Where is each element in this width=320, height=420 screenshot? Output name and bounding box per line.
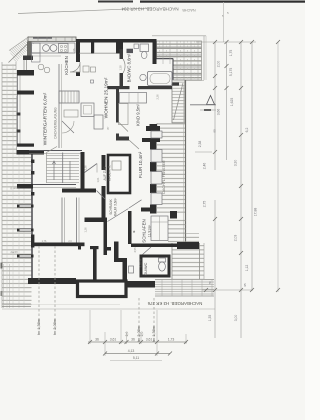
svg-text:WOHNEN 25,19m²: WOHNEN 25,19m² bbox=[104, 77, 110, 118]
svg-text:WINTERGARTEN 6,0m²: WINTERGARTEN 6,0m² bbox=[43, 92, 49, 145]
wc cistern bbox=[140, 44, 149, 52]
wall bad/kind bbox=[108, 83, 180, 90]
svg-text:2,75: 2,75 bbox=[203, 201, 207, 208]
kitchen west wall lower bbox=[23, 56, 33, 61]
schlafen door leaves bbox=[108, 200, 142, 222]
jog wall vertical bbox=[123, 262, 128, 280]
eave rows bottom right bbox=[155, 279, 214, 296]
hall facade line bbox=[31, 155, 34, 279]
svg-text:dachfl: dachfl bbox=[11, 250, 18, 254]
svg-text:95: 95 bbox=[243, 283, 247, 287]
top-right roof hatch bbox=[157, 41, 202, 81]
bad door arc bbox=[123, 59, 125, 73]
wintergarten jut block 1 bbox=[17, 70, 34, 76]
pier b bbox=[91, 42, 94, 54]
wintergarten east glazing bbox=[59, 64, 62, 148]
svg-text:DACHFL. FENSTER: DACHFL. FENSTER bbox=[162, 160, 166, 194]
chain v5 bbox=[277, 42, 279, 292]
du/wc toilet bbox=[159, 258, 166, 271]
height dashed lines left bbox=[39, 246, 154, 341]
svg-text:h= 2,00m: h= 2,00m bbox=[137, 326, 141, 342]
svg-text:NACHB: NACHB bbox=[182, 8, 196, 12]
svg-text:5,175: 5,175 bbox=[229, 68, 233, 77]
wintergarten west glazing upper bbox=[18, 76, 21, 91]
small shaft box bbox=[129, 266, 134, 273]
svg-text:h= 2,00m: h= 2,00m bbox=[53, 319, 57, 335]
dormer window frame 1 bbox=[17, 205, 34, 208]
svg-text:3,66: 3,66 bbox=[217, 109, 221, 116]
risers bbox=[90, 310, 186, 356]
dim line bottom 1 bbox=[88, 341, 187, 343]
wintergarten chairs bbox=[38, 64, 50, 73]
svg-text:11,91m²: 11,91m² bbox=[148, 224, 152, 237]
flur east dormer wall piers bbox=[150, 124, 158, 214]
dim line bottom 2 bbox=[105, 353, 170, 355]
svg-text:DACHVERGLASUNG: DACHVERGLASUNG bbox=[54, 107, 58, 139]
svg-text:KIND 9,5m²: KIND 9,5m² bbox=[136, 103, 141, 125]
svg-text:DU/WC: DU/WC bbox=[144, 262, 148, 275]
lower-left room divider wall bbox=[62, 198, 65, 243]
window sill 1 bbox=[80, 52, 92, 54]
eave bottom line left bbox=[2, 308, 215, 310]
svg-text:g. unten: g. unten bbox=[10, 186, 20, 190]
corridor south wall bbox=[85, 218, 112, 256]
svg-text:90: 90 bbox=[213, 129, 217, 133]
chain v2 bbox=[226, 42, 228, 160]
svg-text:2,26: 2,26 bbox=[84, 165, 88, 171]
svg-text:2,38: 2,38 bbox=[198, 141, 202, 148]
svg-text:1,76: 1,76 bbox=[42, 240, 47, 243]
svg-text:AUF ZUG-: AUF ZUG- bbox=[103, 165, 107, 180]
mid roof band right of FLUR bbox=[157, 80, 186, 243]
svg-text:70: 70 bbox=[208, 281, 212, 285]
dimension numbers right bbox=[198, 50, 258, 322]
svg-text:KÜCHEN: KÜCHEN bbox=[64, 56, 69, 75]
wall wohnen/kind bbox=[116, 89, 119, 141]
svg-text:1,26: 1,26 bbox=[84, 227, 88, 233]
connector y152 bbox=[195, 151, 212, 153]
svg-text:1,12: 1,12 bbox=[245, 265, 249, 272]
svg-text:1,75: 1,75 bbox=[229, 50, 233, 57]
svg-text:FLUR 10,4m²: FLUR 10,4m² bbox=[138, 151, 143, 178]
svg-text:NACHBARGEB. H3 KR 394: NACHBARGEB. H3 KR 394 bbox=[121, 7, 179, 12]
stair hall east wall bbox=[81, 152, 85, 189]
wall H3 bbox=[31, 235, 85, 250]
svg-text:4,55: 4,55 bbox=[133, 247, 137, 253]
svg-text:1,73: 1,73 bbox=[168, 338, 175, 342]
door wedge stairhall to corridor bbox=[85, 164, 98, 173]
kitchen counter bbox=[32, 43, 76, 56]
dormer windows bbox=[151, 131, 162, 205]
wintergarten door arc bbox=[62, 121, 74, 133]
kitchen window band top bbox=[28, 37, 76, 42]
wintergarten jut block 2 bbox=[17, 91, 34, 95]
height labels bbox=[37, 319, 156, 342]
svg-text:1,01: 1,01 bbox=[96, 177, 100, 183]
wall below main stair bbox=[17, 184, 76, 189]
wohnen sideboard bbox=[64, 110, 78, 117]
svg-text:3,00: 3,00 bbox=[234, 315, 238, 322]
connector under triangle bbox=[200, 109, 216, 111]
aufzug machine room box bbox=[108, 155, 130, 193]
svg-text:36: 36 bbox=[95, 338, 99, 342]
wall wohnen east with kitchen door bbox=[76, 54, 80, 76]
wc fixture dark blob bbox=[127, 49, 134, 53]
jog wall horizontal bbox=[114, 258, 127, 262]
bed in schlafen bbox=[151, 216, 168, 241]
wall kind bottom bbox=[116, 126, 160, 142]
svg-text:2,03: 2,03 bbox=[234, 235, 238, 242]
wintergarten west glazing long bbox=[17, 95, 21, 144]
wall top-left pier bbox=[27, 42, 32, 57]
top scan edge line left part bbox=[98, 1, 133, 3]
chimney block bbox=[78, 281, 127, 297]
wall H1 below wintergarten/wohnen bbox=[17, 150, 83, 155]
du/wc walls bbox=[140, 255, 171, 278]
bad wc bowl bbox=[141, 51, 147, 58]
svg-text:2,26: 2,26 bbox=[156, 94, 160, 100]
lower walls: vertical x95 bbox=[90, 246, 99, 249]
svg-text:1,35: 1,35 bbox=[208, 315, 212, 322]
window sill 2 bbox=[94, 52, 116, 54]
vertical faint line from top edge bbox=[223, 2, 225, 42]
kind door leaf bbox=[119, 123, 128, 132]
svg-text:h= 1,50m: h= 1,50m bbox=[152, 326, 156, 342]
pier a bbox=[76, 42, 80, 56]
svg-text:36: 36 bbox=[131, 338, 135, 342]
band bottom eave lines bbox=[2, 303, 31, 305]
small window kitchen west bbox=[24, 60, 27, 70]
door leaf corridor lower bbox=[97, 191, 106, 200]
stairhall lower divider bbox=[77, 198, 80, 243]
wall bad west bbox=[120, 49, 124, 87]
chain v1 bbox=[214, 42, 216, 170]
sloped sheet edge line bbox=[18, 8, 152, 14]
svg-text:SCHRANK: SCHRANK bbox=[109, 198, 113, 214]
svg-text:2,46: 2,46 bbox=[203, 163, 207, 170]
attic stair bbox=[172, 80, 185, 123]
svg-text:3,61: 3,61 bbox=[110, 338, 117, 342]
bottom dim numbers bbox=[95, 332, 174, 360]
bathtub bbox=[148, 72, 173, 86]
flur door leaf bbox=[129, 140, 139, 149]
jog wall stub bbox=[114, 242, 119, 259]
bad sink bbox=[140, 74, 146, 80]
svg-text:h= 1,50m: h= 1,50m bbox=[37, 319, 41, 335]
svg-text:17,88: 17,88 bbox=[254, 208, 258, 217]
dim line bottom 3 bbox=[110, 360, 162, 362]
top connector bbox=[196, 41, 256, 43]
dormer window frame 3 bbox=[17, 255, 34, 258]
svg-text:1,625: 1,625 bbox=[230, 98, 234, 107]
chain v3 bbox=[240, 42, 242, 338]
svg-text:MASCH. R.: MASCH. R. bbox=[108, 165, 112, 182]
svg-text:4,13: 4,13 bbox=[128, 349, 135, 353]
eave connector bbox=[202, 289, 253, 291]
svg-text:RAUM 3,6m²: RAUM 3,6m² bbox=[114, 198, 118, 216]
wohnen dining table bbox=[94, 115, 103, 129]
small mark in wohnen bbox=[91, 80, 94, 83]
bottom wall bar right bbox=[126, 281, 155, 288]
wintergarten south wall bbox=[17, 144, 34, 147]
bottom wall bar left bbox=[28, 278, 76, 284]
kind wardrobe bbox=[120, 93, 147, 104]
svg-text:NACHBARGEB. H3 KR 376: NACHBARGEB. H3 KR 376 bbox=[147, 301, 202, 306]
top scan edge line right part bbox=[140, 1, 305, 3]
bad west wall upper bbox=[120, 42, 124, 49]
dimension ticks right bbox=[204, 40, 280, 292]
svg-text:2,00: 2,00 bbox=[217, 61, 221, 68]
svg-text:SCHLAFEN: SCHLAFEN bbox=[142, 219, 147, 242]
svg-text:1,38: 1,38 bbox=[119, 65, 123, 71]
left roof hatch band bbox=[2, 62, 32, 308]
svg-text:3,30: 3,30 bbox=[234, 160, 238, 167]
corridor wall segment bbox=[62, 189, 96, 193]
svg-text:5,55m²: 5,55m² bbox=[139, 259, 143, 268]
dormer window frame 2 bbox=[17, 229, 34, 232]
benchmark triangle bbox=[190, 96, 216, 111]
bottom ticks bbox=[88, 340, 188, 356]
svg-text:2,0: 2,0 bbox=[125, 332, 129, 337]
lower roof band right of SCHLAFEN bbox=[168, 219, 204, 280]
pier c bbox=[116, 42, 120, 54]
svg-text:BAD/WC 8,6m²: BAD/WC 8,6m² bbox=[127, 53, 132, 82]
roof outer edge double lines top-right bbox=[152, 36, 206, 81]
kitchen door arc bbox=[70, 62, 80, 72]
schlafen walls bbox=[128, 208, 199, 250]
wohnen interior stair bbox=[59, 91, 79, 103]
top wall line right part bbox=[76, 39, 157, 43]
main stair bbox=[47, 147, 80, 184]
wall pier NE of bath bbox=[153, 42, 157, 64]
kind desk tall bbox=[119, 104, 129, 125]
tiny wall dimension smudges bbox=[42, 48, 160, 253]
corridor east wall bbox=[102, 155, 106, 222]
wohnen table bbox=[81, 103, 94, 117]
roof hip diagonal top-left bbox=[9, 37, 35, 64]
chain v4 bbox=[251, 42, 253, 291]
du/wc door leaf bbox=[143, 247, 152, 255]
svg-text:5,11: 5,11 bbox=[133, 356, 139, 360]
svg-text:6,2: 6,2 bbox=[245, 128, 249, 133]
